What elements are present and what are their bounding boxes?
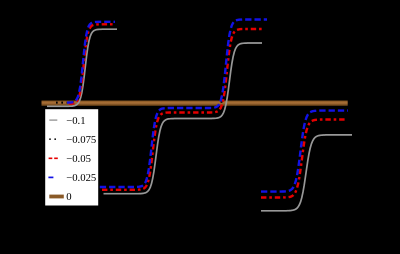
legend sample -0.05 (red dashes) [49,157,58,159]
-0.075 curve (black dotted) segment D [261,115,346,195]
legend sample -0.025 (blue dash) [48,176,53,178]
-0.05 curve (red dash-dot) segment BC [102,29,263,190]
-0.025 curve (blue dashed) segment BC [100,20,267,188]
legend sample -0.1 (gray solid) [49,119,57,121]
-0.025 curve (blue dashed) segment D [261,111,348,192]
svg-text:−0.1: −0.1 [66,115,85,127]
legend sample 0 (brown thick) [49,195,64,199]
-0.1 curve (gray solid) segment D [261,135,352,211]
zero line: 0 curve (brown thick) [42,101,348,106]
legend box [45,109,98,205]
-0.1 curve (gray solid) segment A [47,29,117,106]
-0.075 curve (black dotted) segment A [56,23,114,103]
svg-text:−0.05: −0.05 [66,153,91,165]
-0.075 curve (black dotted) segment BC [101,24,265,188]
-0.05 curve (red dash-dot) segment D [261,120,345,198]
-0.05 curve (red dash-dot) segment A [69,24,113,104]
svg-text:−0.025: −0.025 [66,172,96,184]
-0.1 curve (gray solid) segment BC [104,43,263,194]
-0.025 curve (blue dashed) segment A [67,22,115,103]
svg-text:0: 0 [66,191,71,203]
legend sample -0.075 (black dots) [49,138,56,140]
svg-text:−0.075: −0.075 [66,134,96,146]
